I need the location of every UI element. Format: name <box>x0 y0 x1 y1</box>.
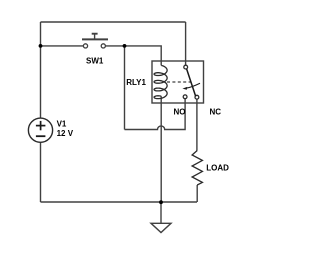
relay common contact <box>184 65 188 69</box>
svg-text:RLY1: RLY1 <box>126 78 146 87</box>
wire coil bottom lead <box>160 96 162 202</box>
wire bottom rail <box>41 201 198 203</box>
svg-text:SW1: SW1 <box>86 57 104 66</box>
wire load bottom lead <box>196 185 198 202</box>
svg-text:NO: NO <box>174 108 186 117</box>
pushbutton switch SW1 <box>83 44 105 48</box>
relay coil <box>154 65 167 98</box>
wire left rail lower <box>40 142 42 202</box>
svg-text:12 V: 12 V <box>57 129 74 138</box>
relay actuation arrow <box>186 83 200 88</box>
V1 plus sign <box>36 121 46 136</box>
wire switch row right segment to coil <box>105 46 161 66</box>
svg-text:LOAD: LOAD <box>206 164 229 173</box>
ground <box>151 223 171 232</box>
junction dot at switch tap <box>123 44 127 48</box>
junction dot at ground node <box>159 200 163 204</box>
junction dot at switch row left <box>39 44 43 48</box>
svg-text:V1: V1 <box>57 120 67 129</box>
relay NO contact <box>183 95 187 99</box>
wire top rail <box>41 21 186 23</box>
svg-text:NC: NC <box>210 108 222 117</box>
V1 minus sign <box>36 135 46 137</box>
relay armature <box>187 69 196 97</box>
wire switch tap down <box>124 46 126 130</box>
wire ground stem <box>160 203 162 224</box>
wire right rail <box>185 22 187 65</box>
relay NC contact <box>195 95 199 99</box>
relay RLY1 box <box>152 61 204 103</box>
wire NC contact to load <box>196 99 198 150</box>
relay dashed link <box>167 81 191 83</box>
resistor LOAD <box>192 151 202 186</box>
wire left rail upper <box>40 22 42 118</box>
wire switch row left segment <box>41 45 84 47</box>
wire NO contact down with hop over coil lead <box>125 99 186 130</box>
voltage source V1 circle <box>28 118 52 142</box>
